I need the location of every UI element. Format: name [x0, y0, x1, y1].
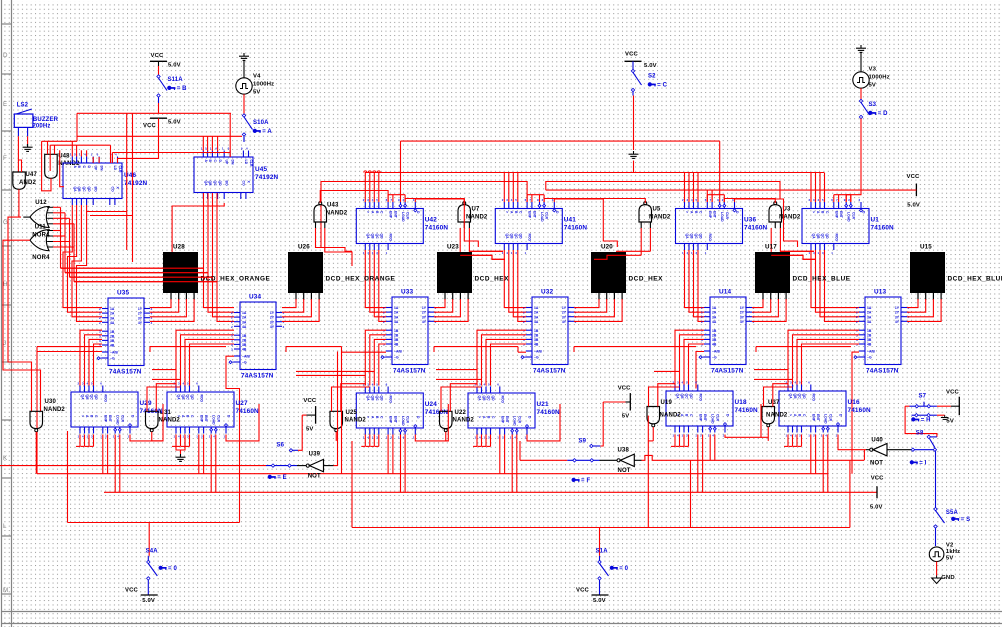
svg-text:QB: QB — [85, 395, 89, 401]
switch S11A — [157, 75, 160, 78]
svg-text:DCD_HEX_BLUE: DCD_HEX_BLUE — [793, 276, 851, 283]
svg-text:QB: QB — [816, 234, 820, 240]
counter U16 74160N — [779, 391, 846, 426]
svg-text:4B: 4B — [867, 343, 872, 347]
svg-text:VCC: VCC — [143, 123, 156, 129]
wires U12 inputs to bus verticals — [47, 206, 53, 208]
NAND gate U22 — [440, 411, 453, 428]
svg-text:2A: 2A — [712, 311, 717, 315]
wires counter bottom pins — [674, 435, 676, 447]
svg-text:NOR4: NOR4 — [32, 255, 50, 261]
svg-text:NOT: NOT — [870, 460, 883, 466]
svg-text:VCC: VCC — [151, 53, 164, 59]
svg-text:~G: ~G — [534, 356, 539, 360]
svg-text:U42: U42 — [425, 217, 437, 224]
svg-text:U18: U18 — [735, 399, 747, 406]
wire RCO loop — [415, 404, 448, 441]
wires mux Y outputs to display pins — [434, 299, 445, 308]
svg-text:NAND2: NAND2 — [159, 418, 181, 424]
wire mid line to U38 — [519, 441, 521, 460]
svg-text:2A: 2A — [394, 311, 399, 315]
svg-text:U32: U32 — [541, 289, 553, 296]
svg-text:QC: QC — [90, 395, 94, 401]
svg-text:NOT: NOT — [308, 474, 321, 480]
wire NAND gate row2 output — [335, 432, 337, 441]
svg-text:CLR: CLR — [715, 414, 719, 422]
svg-text:= D: = D — [878, 111, 888, 117]
counter U45 74192N — [194, 157, 253, 193]
svg-text:>: > — [685, 211, 689, 213]
svg-text:U34: U34 — [249, 294, 261, 301]
svg-text:4: 4 — [283, 320, 285, 324]
switch S7 second throw to ground — [912, 414, 916, 416]
svg-text:2B: 2B — [712, 333, 717, 337]
svg-text:QD: QD — [94, 395, 98, 401]
counter U1 74160N — [802, 209, 869, 244]
wires counter bottom pins — [364, 435, 366, 447]
svg-text:QD: QD — [87, 187, 91, 193]
wire select bus row — [37, 346, 102, 348]
wire mux U33 select — [342, 351, 387, 353]
svg-text:1Y: 1Y — [138, 307, 143, 311]
buzzer LS2 — [14, 114, 33, 127]
svg-text:U26: U26 — [298, 244, 310, 251]
wire bus A left — [104, 491, 877, 493]
svg-text:3: 3 — [231, 348, 233, 352]
switch S10A — [242, 114, 245, 117]
svg-text:74AS157N: 74AS157N — [109, 369, 142, 376]
mini ground — [944, 415, 946, 417]
svg-text:VCC: VCC — [618, 385, 631, 391]
svg-text:GND: GND — [941, 575, 955, 581]
svg-text:S8: S8 — [916, 431, 924, 437]
svg-text:3Y: 3Y — [270, 320, 275, 324]
svg-text:~A/B: ~A/B — [712, 350, 720, 354]
svg-text:~A/B: ~A/B — [534, 350, 542, 354]
svg-text:D: D — [3, 52, 8, 59]
wire mux U34 select — [226, 356, 240, 522]
wire U30 left loop — [67, 431, 69, 523]
svg-text:5.0V: 5.0V — [142, 598, 155, 604]
svg-text:U17: U17 — [765, 244, 777, 251]
svg-text:2A: 2A — [110, 312, 115, 316]
wire bus u46-u45 tops — [50, 144, 110, 146]
svg-text:QA: QA — [73, 187, 77, 193]
svg-text:74160N: 74160N — [236, 408, 260, 415]
wire U11 output — [3, 240, 41, 411]
svg-text:>: > — [81, 415, 85, 417]
svg-text:74160N: 74160N — [848, 407, 872, 414]
svg-text:E: E — [3, 101, 7, 108]
svg-text:2Y: 2Y — [740, 311, 745, 315]
svg-text:5V: 5V — [946, 555, 954, 561]
svg-text:RCO: RCO — [834, 234, 838, 242]
svg-text:1Y: 1Y — [422, 306, 427, 310]
switch S3 — [859, 99, 862, 102]
wires NAND gate row1 — [774, 222, 776, 228]
wires mux Y outputs to display pins — [574, 299, 599, 308]
wires NAND gate row1 — [463, 222, 465, 228]
svg-text:CLR: CLR — [851, 212, 855, 220]
svg-text:VCC: VCC — [946, 389, 959, 395]
svg-text:DCD_HEX_ORANGE: DCD_HEX_ORANGE — [326, 276, 396, 283]
svg-text:>: > — [505, 211, 509, 213]
svg-text:U30: U30 — [45, 399, 57, 405]
svg-text:74AS157N: 74AS157N — [866, 368, 899, 375]
svg-text:U14: U14 — [719, 289, 731, 296]
svg-text:VCC: VCC — [125, 588, 138, 594]
svg-text:2: 2 — [99, 321, 101, 325]
svg-text:U39: U39 — [309, 452, 321, 458]
wires counter top pins row1 — [684, 173, 686, 203]
svg-text:4B: 4B — [394, 343, 399, 347]
svg-text:DCD_HEX: DCD_HEX — [629, 276, 664, 283]
counter U36 74160N — [676, 209, 743, 244]
svg-text:ENP: ENP — [528, 211, 532, 219]
svg-text:NAND2: NAND2 — [779, 215, 801, 221]
wire V4 to S10A — [243, 94, 245, 114]
wire NAND gate row2 output — [652, 427, 654, 441]
svg-text:3: 3 — [99, 339, 101, 343]
svg-text:2A: 2A — [242, 316, 247, 320]
wire S7 common to S8 — [905, 406, 937, 437]
svg-text:NAND2: NAND2 — [466, 215, 488, 221]
counter U29 74160N — [71, 392, 138, 427]
svg-text:ENP: ENP — [811, 414, 815, 422]
svg-text:ENT: ENT — [839, 211, 843, 219]
svg-text:4B: 4B — [242, 348, 247, 352]
svg-text:2Y: 2Y — [895, 311, 900, 315]
svg-text:LOAD: LOAD — [212, 415, 216, 425]
svg-text:LOAD: LOAD — [711, 414, 715, 424]
svg-text:4B: 4B — [110, 344, 115, 348]
wire RCO loop — [130, 404, 163, 441]
NOT gate U38 — [617, 459, 620, 462]
svg-text:4A: 4A — [534, 320, 539, 324]
svg-text:>: > — [366, 416, 370, 418]
wire U12 output — [23, 216, 30, 218]
svg-text:2B: 2B — [534, 333, 539, 337]
svg-text:200Hz: 200Hz — [32, 124, 50, 130]
wire top bus 2 — [321, 182, 527, 248]
svg-text:= H: = H — [921, 418, 931, 424]
wires U5 input elbows overlay — [594, 255, 641, 259]
mux U35 74AS157N — [108, 298, 144, 366]
svg-text:3A: 3A — [712, 315, 717, 319]
svg-text:1A: 1A — [110, 307, 115, 311]
svg-text:NAND2: NAND2 — [649, 215, 671, 221]
svg-text:ENT: ENT — [532, 211, 536, 219]
svg-text:2: 2 — [701, 315, 703, 319]
svg-text:S9: S9 — [579, 439, 587, 445]
svg-text:QB: QB — [793, 394, 797, 400]
svg-text:RCO: RCO — [389, 396, 393, 404]
svg-text:LOAD: LOAD — [540, 212, 544, 222]
wire V2 to GND — [936, 562, 938, 576]
svg-text:2: 2 — [523, 306, 525, 310]
svg-text:L: L — [3, 523, 7, 530]
svg-text:= A: = A — [262, 129, 272, 135]
wires NAND gate row2 inputs — [773, 384, 788, 407]
svg-text:~A/B: ~A/B — [394, 350, 402, 354]
svg-text:2: 2 — [383, 306, 385, 310]
wires U45 outputs down to mux U34 A inputs — [204, 193, 235, 308]
svg-text:4A: 4A — [242, 325, 247, 329]
svg-text:1B: 1B — [394, 329, 399, 333]
wire RCO loop — [226, 404, 259, 441]
svg-text:U19: U19 — [661, 400, 673, 406]
svg-text:1A: 1A — [867, 306, 872, 310]
svg-text:1B: 1B — [867, 329, 872, 333]
wire NAND gate row2 output — [151, 432, 153, 441]
svg-text:1Y: 1Y — [895, 306, 900, 310]
wires counter bottom pins — [175, 435, 177, 447]
svg-text:CO: CO — [110, 187, 114, 192]
mux U33 74AS157N — [392, 297, 428, 365]
svg-text:CLR: CLR — [545, 212, 549, 220]
wire RCO loop — [527, 404, 560, 441]
svg-text:QA: QA — [789, 394, 793, 400]
svg-text:QA: QA — [685, 234, 689, 240]
svg-text:1kHz: 1kHz — [946, 549, 960, 555]
counter U24 74160N — [356, 393, 423, 428]
svg-text:5V: 5V — [869, 83, 877, 89]
svg-text:QB: QB — [482, 396, 486, 402]
svg-text:V2: V2 — [946, 542, 954, 548]
svg-text:ENP: ENP — [199, 415, 203, 423]
svg-text:LOAD: LOAD — [116, 415, 120, 425]
wire select line 2 — [341, 347, 343, 474]
svg-text:4A: 4A — [712, 320, 717, 324]
svg-text:2: 2 — [383, 315, 385, 319]
ground under U27 — [176, 437, 185, 450]
svg-text:NAND2: NAND2 — [453, 418, 475, 424]
AND gate U48 — [45, 154, 58, 178]
svg-text:>: > — [478, 416, 482, 418]
svg-text:5.0V: 5.0V — [593, 598, 606, 604]
wire U48 output loop — [42, 141, 51, 191]
svg-text:QA: QA — [676, 394, 680, 400]
svg-text:QD: QD — [518, 234, 522, 240]
svg-text:U28: U28 — [173, 244, 185, 251]
NAND gate U37 — [762, 407, 775, 424]
svg-text:74AS157N: 74AS157N — [711, 368, 744, 375]
wires U11 inputs to bus verticals — [47, 230, 53, 232]
long verticals from 74192 area down — [126, 113, 128, 250]
svg-text:2: 2 — [99, 307, 101, 311]
svg-text:2: 2 — [231, 325, 233, 329]
svg-text:H: H — [3, 281, 8, 288]
svg-text:5V: 5V — [946, 418, 954, 424]
svg-text:VCC: VCC — [625, 52, 638, 58]
wire V3 down — [860, 88, 862, 99]
svg-text:G: G — [3, 219, 8, 226]
svg-text:3B: 3B — [534, 338, 539, 342]
wires NAND gate row2 inputs — [341, 384, 366, 412]
counter U46 74192N — [63, 163, 122, 199]
wire S4A drop — [148, 523, 150, 556]
svg-text:S7: S7 — [919, 393, 927, 399]
wires U7 input elbows overlay — [460, 255, 505, 259]
svg-text:U24: U24 — [425, 401, 437, 408]
wires counter outputs staircase to mux B inputs — [477, 330, 526, 385]
svg-text:QD: QD — [379, 396, 383, 402]
svg-text:U37: U37 — [768, 400, 780, 406]
svg-text:U11: U11 — [35, 224, 47, 230]
wires counter outputs down to mux A inputs — [504, 250, 526, 308]
wires NAND gate row2 inputs — [156, 384, 176, 412]
svg-text:3B: 3B — [712, 338, 717, 342]
svg-text:2: 2 — [856, 320, 858, 324]
svg-text:U45: U45 — [255, 166, 267, 173]
svg-text:~G: ~G — [110, 357, 115, 361]
svg-text:2: 2 — [523, 311, 525, 315]
NOT gate U40 — [870, 448, 873, 451]
svg-text:3Y: 3Y — [138, 316, 143, 320]
counter U21 74160N — [468, 393, 535, 428]
mux U32 74AS157N — [532, 297, 568, 365]
wire U38 output hop — [634, 459, 641, 461]
svg-text:3Y: 3Y — [562, 315, 567, 319]
svg-text:U23: U23 — [447, 244, 459, 251]
svg-text:RCO: RCO — [811, 394, 815, 402]
svg-text:74160N: 74160N — [735, 407, 759, 414]
wires NAND gate row2 inputs — [658, 384, 675, 407]
svg-text:4A: 4A — [867, 320, 872, 324]
svg-text:= C: = C — [657, 83, 667, 89]
wire NAND gate row2 output — [767, 427, 769, 441]
svg-text:3B: 3B — [110, 339, 115, 343]
svg-text:U12: U12 — [35, 200, 47, 206]
wire bus C left — [37, 473, 828, 475]
wire VCC rail to counters — [546, 189, 917, 191]
svg-text:CLR: CLR — [517, 416, 521, 424]
wire mux U32 select — [518, 351, 526, 353]
wires NOR bus verticals to data bus — [60, 207, 62, 268]
svg-text:AND2: AND2 — [19, 180, 36, 186]
svg-text:= F: = F — [581, 478, 590, 484]
svg-text:ENT: ENT — [108, 415, 112, 423]
wire RCO loop — [725, 404, 761, 437]
svg-text:1Y: 1Y — [270, 311, 275, 315]
svg-text:U25: U25 — [346, 410, 358, 416]
wires counter top pins row1 — [810, 173, 812, 203]
svg-text:U47: U47 — [26, 172, 38, 178]
svg-text:ENP: ENP — [500, 416, 504, 424]
wire LS2 right pin to ground — [27, 136, 29, 144]
mux U13 74AS157N — [865, 297, 901, 365]
svg-text:QD: QD — [802, 394, 806, 400]
svg-text:ENP: ENP — [389, 211, 393, 219]
svg-text:ENP: ENP — [389, 416, 393, 424]
wire ENT elbow — [554, 199, 617, 247]
svg-text:QA: QA — [204, 181, 208, 187]
svg-text:1B: 1B — [110, 330, 115, 334]
svg-text:4Y: 4Y — [562, 320, 567, 324]
wire LS2 left pin to U47 — [17, 136, 19, 172]
svg-text:LOAD: LOAD — [401, 416, 405, 426]
svg-text:74160N: 74160N — [744, 225, 768, 232]
svg-text:5.0V: 5.0V — [168, 63, 181, 69]
wire mux U14 select — [696, 352, 704, 389]
svg-text:5.0V: 5.0V — [870, 505, 883, 511]
wires mux Y outputs to display pins — [752, 299, 763, 308]
svg-text:3A: 3A — [242, 320, 247, 324]
svg-text:QA: QA — [366, 234, 370, 240]
wire data bus overlay across U28 — [61, 267, 204, 269]
svg-text:5.0V: 5.0V — [168, 120, 181, 126]
svg-text:CLR: CLR — [828, 414, 832, 422]
wire mux U35 select — [37, 352, 102, 474]
wire U47 output down to NOR gates — [18, 189, 20, 217]
svg-text:2B: 2B — [394, 333, 399, 337]
svg-text:3: 3 — [99, 334, 101, 338]
svg-text:S11A: S11A — [168, 77, 184, 83]
svg-text:QD: QD — [218, 181, 222, 187]
wires NAND U30 output — [35, 432, 37, 474]
wire U19 chain vertical — [647, 416, 649, 528]
wire mux U13 select — [852, 352, 859, 474]
svg-text:= E: = E — [277, 475, 287, 481]
svg-text:U41: U41 — [564, 217, 576, 224]
svg-text:NOT: NOT — [618, 468, 631, 474]
svg-text:U33: U33 — [401, 289, 413, 296]
wires mux Y outputs to display pins — [150, 299, 171, 308]
svg-text:V4: V4 — [253, 74, 261, 80]
svg-text:RCO: RCO — [500, 396, 504, 404]
wire S10A rail — [77, 135, 242, 137]
wire long line junction to U40 — [863, 450, 865, 461]
wire U48 inputs — [47, 141, 49, 154]
svg-text:ENP: ENP — [834, 211, 838, 219]
svg-text:QA: QA — [505, 234, 509, 240]
wires counter bottom pins — [476, 435, 478, 447]
svg-text:3: 3 — [231, 338, 233, 342]
svg-text:3Y: 3Y — [740, 315, 745, 319]
svg-text:CLR: CLR — [725, 212, 729, 220]
svg-text:QA: QA — [366, 396, 370, 402]
svg-text:2A: 2A — [867, 311, 872, 315]
svg-text:RCO: RCO — [103, 395, 107, 403]
wire NOT U38 input line — [520, 459, 567, 461]
wires counter top pins row1 — [364, 173, 366, 203]
svg-text:2: 2 — [701, 311, 703, 315]
svg-text:CLR: CLR — [216, 415, 220, 423]
svg-text:>: > — [789, 414, 793, 416]
svg-text:VCC: VCC — [871, 475, 884, 481]
svg-text:5.0V: 5.0V — [644, 63, 657, 69]
wire clock line — [401, 140, 720, 142]
svg-text:74160N: 74160N — [871, 225, 895, 232]
svg-text:5.0V: 5.0V — [907, 203, 920, 209]
svg-text:3B: 3B — [394, 338, 399, 342]
svg-text:2: 2 — [231, 311, 233, 315]
svg-text:2: 2 — [99, 312, 101, 316]
svg-text:CLR: CLR — [118, 166, 122, 174]
wires U3 input elbows overlay — [771, 255, 816, 259]
svg-text:LD: LD — [244, 160, 248, 165]
svg-text:DN: DN — [231, 160, 235, 165]
svg-text:RCO: RCO — [528, 234, 532, 242]
svg-text:S10A: S10A — [253, 120, 269, 126]
counter U18 74160N — [666, 391, 733, 426]
wire top bus 1 — [365, 172, 824, 174]
svg-text:~A/B: ~A/B — [867, 350, 875, 354]
svg-text:U27: U27 — [236, 400, 248, 407]
switch S2 — [631, 69, 634, 72]
svg-text:LOAD: LOAD — [720, 212, 724, 222]
svg-text:BO: BO — [225, 181, 229, 186]
